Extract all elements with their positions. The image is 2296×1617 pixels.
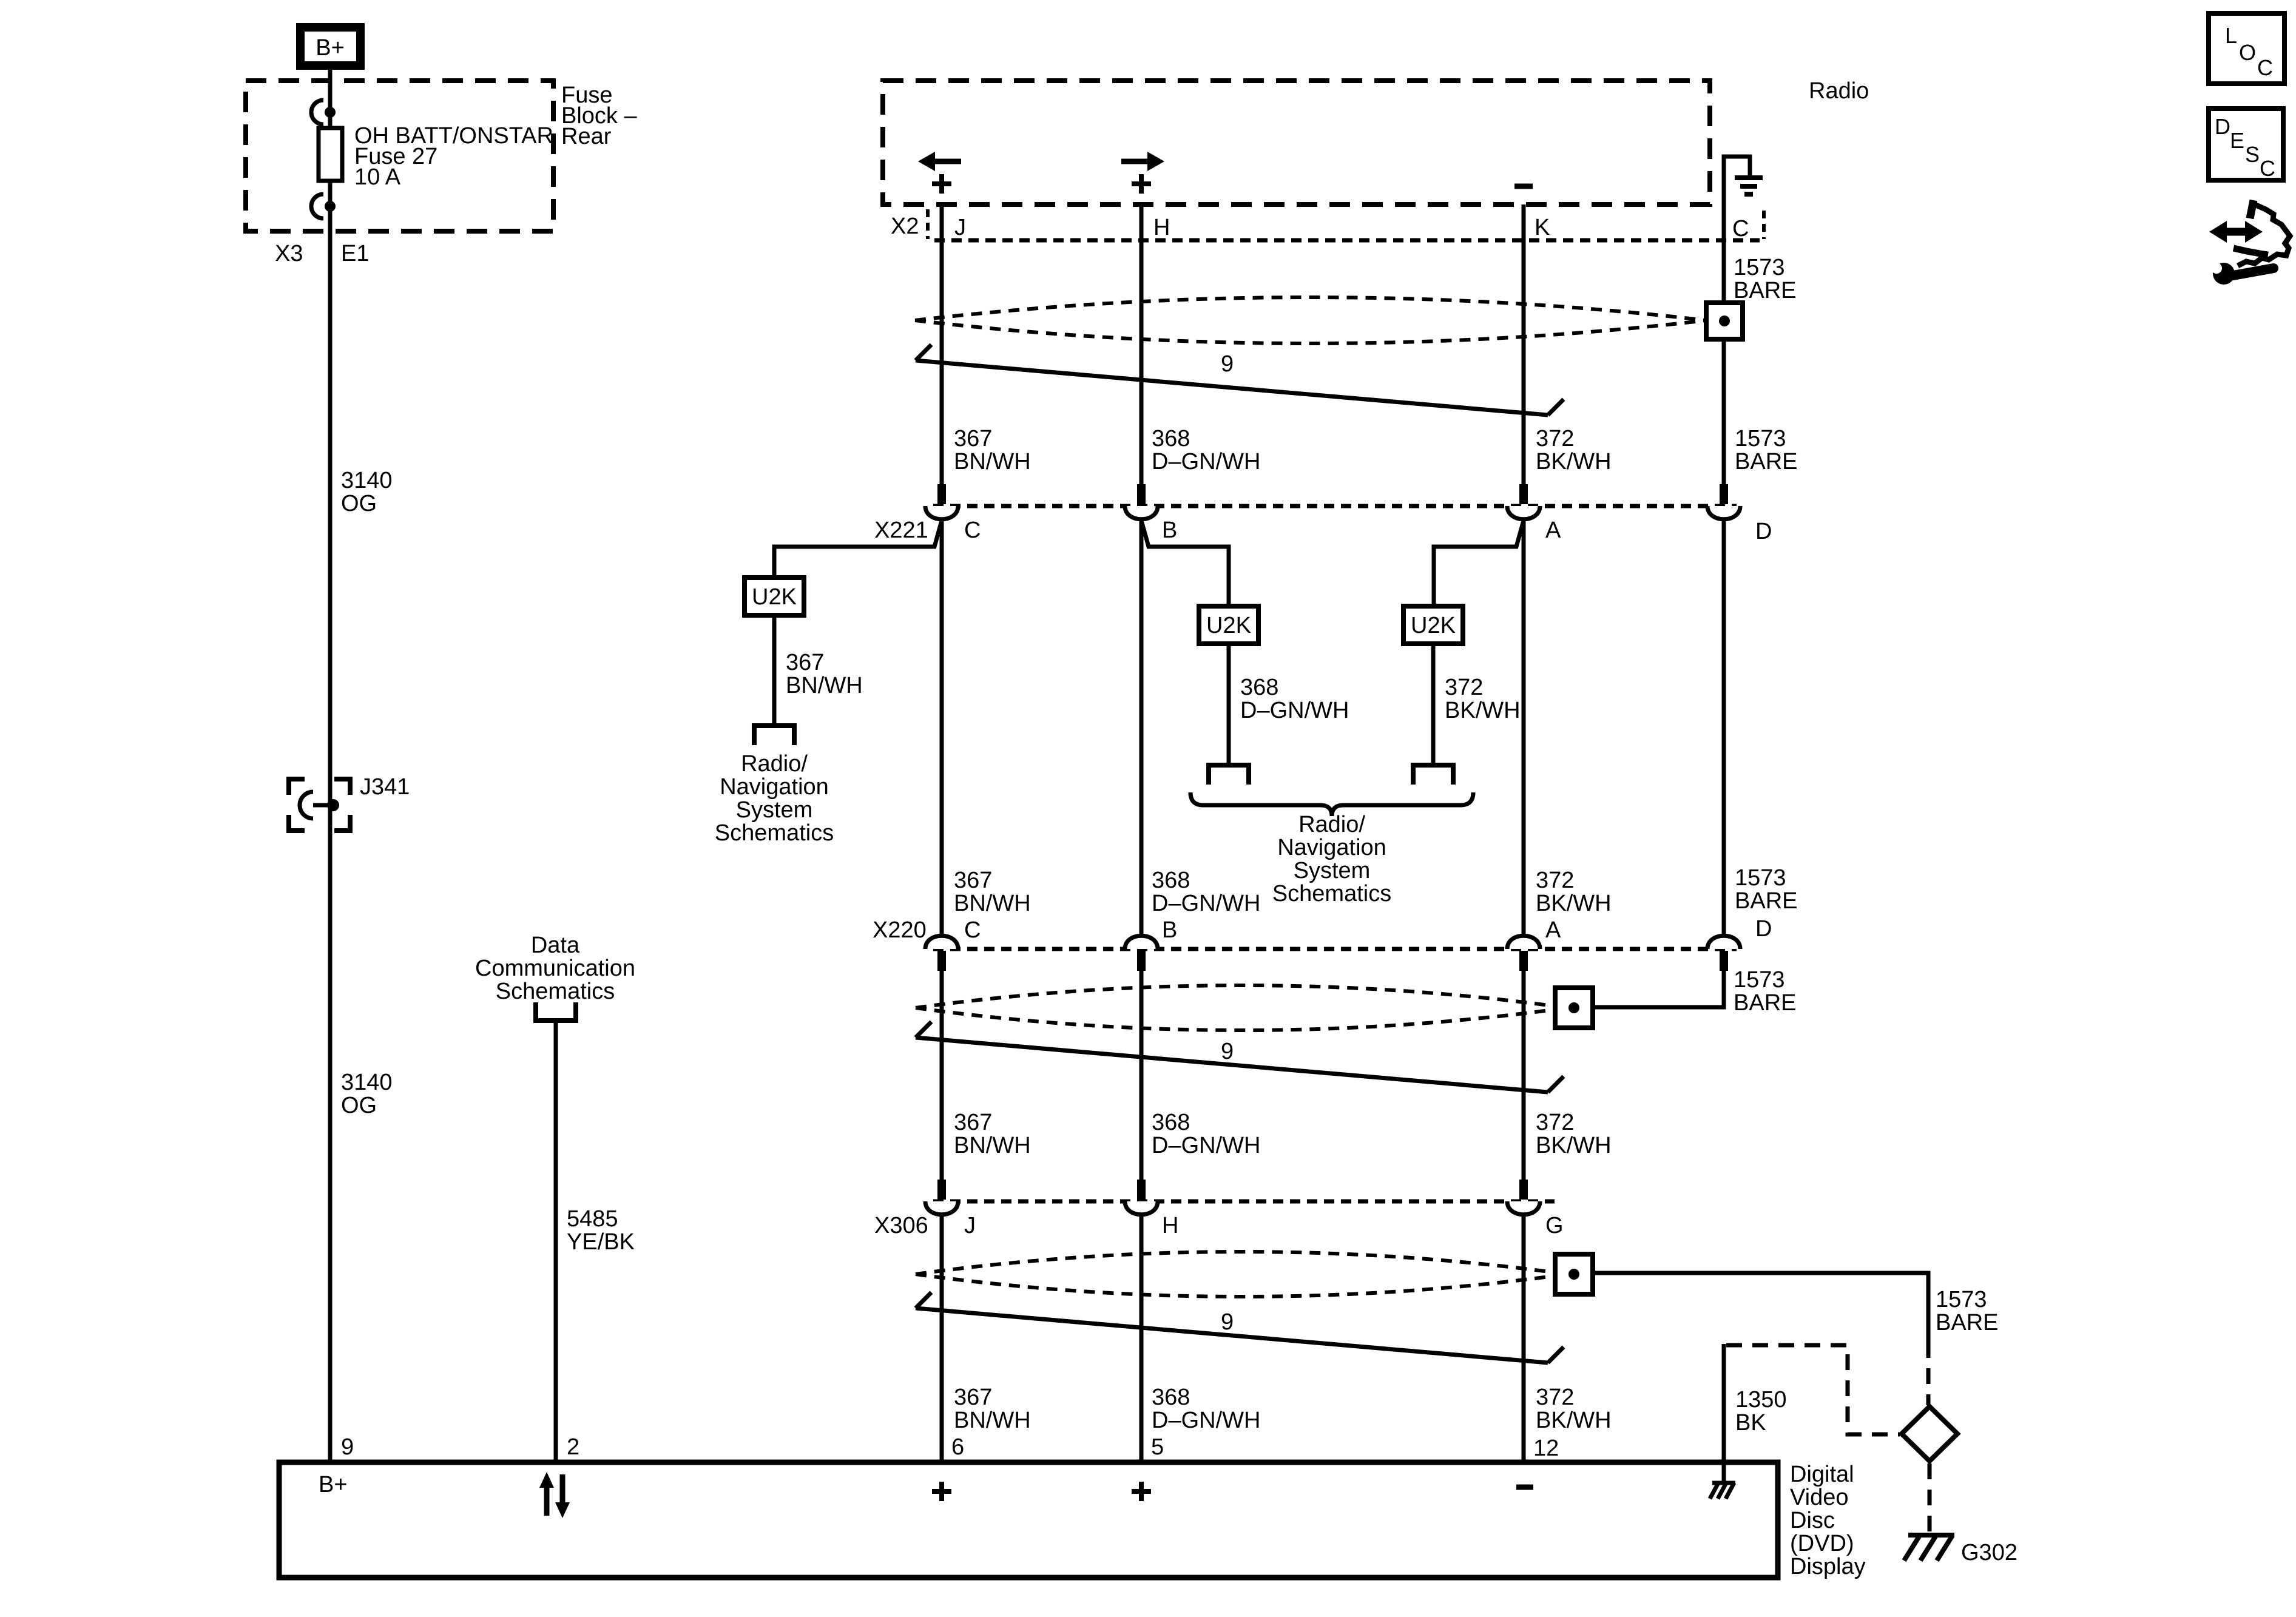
svg-text:BK/WH: BK/WH xyxy=(1536,1408,1612,1433)
label Radio/Navigation System Schematics left xyxy=(715,751,834,846)
label X220 and pins C B A D xyxy=(873,916,1772,943)
svg-text:C: C xyxy=(2260,156,2275,181)
svg-text:1573: 1573 xyxy=(1735,865,1786,891)
label Radio xyxy=(1809,78,1869,104)
svg-text:BK/WH: BK/WH xyxy=(1536,449,1612,474)
wire labels row 2 xyxy=(954,865,1797,916)
svg-text:BARE: BARE xyxy=(1735,449,1797,474)
svg-text:X306: X306 xyxy=(874,1213,928,1238)
connector X306 terminal H xyxy=(1125,1180,1158,1215)
connector X306 terminal J xyxy=(925,1180,958,1215)
svg-text:BK/WH: BK/WH xyxy=(1445,698,1521,723)
connector X220 dashed line xyxy=(933,947,1737,951)
shield drain termination box top xyxy=(1706,303,1743,339)
wire 1573 BARE column C/D xyxy=(1722,240,1726,934)
connector X221 terminal C xyxy=(925,484,958,519)
svg-text:1573: 1573 xyxy=(1734,967,1785,993)
radio + terminal J xyxy=(932,174,951,194)
label 367 BN/WH branch xyxy=(786,650,863,698)
connector X220 terminal B xyxy=(1125,936,1158,971)
wire from B+ through fuse to DVD pin 9 (3140 OG) xyxy=(328,66,333,1462)
label 368 D-GN/WH branch xyxy=(1240,675,1349,723)
svg-text:Rear: Rear xyxy=(561,124,612,149)
wire branch X221-B to U2K xyxy=(1141,521,1229,606)
svg-text:9: 9 xyxy=(341,1434,354,1460)
wire 1350 BK xyxy=(1722,1344,1726,1462)
svg-text:H: H xyxy=(1162,1213,1178,1238)
svg-text:367: 367 xyxy=(954,426,992,451)
svg-text:Radio: Radio xyxy=(1809,78,1869,104)
svg-text:BARE: BARE xyxy=(1936,1310,1998,1335)
wire labels row 1 xyxy=(954,426,1797,474)
dashed link 1350 BK to splice diamond xyxy=(1726,1345,1900,1434)
off-page bracket data communication xyxy=(536,1002,576,1021)
label 1573 BARE at X220 drain xyxy=(1734,967,1796,1016)
svg-text:S: S xyxy=(2245,142,2260,167)
svg-text:9: 9 xyxy=(1221,1309,1234,1335)
label OH BATT/ONSTAR Fuse 27 10 A xyxy=(354,123,553,190)
dashed link drain to diamond xyxy=(1926,1342,1931,1405)
svg-text:368: 368 xyxy=(1152,1385,1190,1410)
svg-text:X2: X2 xyxy=(891,214,919,239)
DVD serial data arrows xyxy=(539,1472,570,1518)
svg-text:D: D xyxy=(1755,916,1772,942)
svg-text:372: 372 xyxy=(1536,1385,1574,1410)
splice diamond xyxy=(1902,1406,1957,1461)
radio right audio arrow xyxy=(1121,152,1164,171)
shield drain termination box bottom xyxy=(1555,1254,1593,1294)
svg-text:367: 367 xyxy=(786,650,824,675)
svg-text:Radio/: Radio/ xyxy=(741,751,808,777)
connector X2 left tick xyxy=(926,209,930,239)
LOC legend box xyxy=(2209,13,2284,84)
svg-text:BARE: BARE xyxy=(1734,278,1796,303)
svg-text:D: D xyxy=(2215,114,2230,139)
svg-text:U2K: U2K xyxy=(1411,613,1456,638)
label Fuse Block - Rear xyxy=(561,83,637,149)
svg-text:Display: Display xyxy=(1790,1554,1866,1579)
svg-text:(DVD): (DVD) xyxy=(1790,1531,1854,1556)
DESC legend box xyxy=(2209,109,2283,181)
label 3140 OG lower xyxy=(341,1070,393,1118)
svg-text:B+: B+ xyxy=(316,35,345,61)
svg-text:C: C xyxy=(964,917,981,943)
twisted pair symbol 9 top xyxy=(916,345,1564,415)
fuse block rear dashed box xyxy=(246,81,553,231)
svg-text:E: E xyxy=(2230,128,2244,153)
DVD pin numbers 9 2 6 5 12 xyxy=(341,1434,1559,1461)
DVD chassis ground symbol xyxy=(1710,1462,1735,1499)
svg-text:OG: OG xyxy=(341,491,377,516)
svg-text:C: C xyxy=(1732,216,1749,241)
connector X221 terminal D xyxy=(1707,484,1740,519)
svg-text:L: L xyxy=(2225,23,2237,48)
label 9 middle xyxy=(1221,1039,1234,1064)
DVD display box xyxy=(279,1462,1778,1578)
svg-text:9: 9 xyxy=(1221,1039,1234,1064)
DVD + terminal pin 6 xyxy=(932,1482,951,1501)
svg-text:J: J xyxy=(954,215,966,240)
radio + terminal H xyxy=(1132,174,1151,194)
connector X220 terminal D xyxy=(1707,936,1740,971)
svg-text:B+: B+ xyxy=(319,1472,348,1497)
svg-text:Video: Video xyxy=(1790,1485,1849,1510)
splice J341 xyxy=(289,779,350,831)
label 9 bottom xyxy=(1221,1309,1234,1335)
svg-text:BN/WH: BN/WH xyxy=(954,891,1031,916)
svg-text:Communication: Communication xyxy=(475,956,635,981)
svg-text:372: 372 xyxy=(1536,868,1574,893)
twisted pair symbol 9 middle xyxy=(916,1022,1564,1092)
svg-text:BN/WH: BN/WH xyxy=(954,1408,1031,1433)
svg-text:367: 367 xyxy=(954,1385,992,1410)
svg-text:3140: 3140 xyxy=(341,1070,393,1095)
module U2K right xyxy=(1403,606,1463,644)
off-page bracket radio/nav left xyxy=(754,726,794,745)
wire 367 BN/WH column J/C xyxy=(940,204,944,1462)
off-page bracket radio/nav middle xyxy=(1209,765,1249,785)
svg-text:G302: G302 xyxy=(1961,1540,2017,1565)
label X221 and pins C B A D xyxy=(874,518,1772,544)
svg-text:X220: X220 xyxy=(873,917,927,943)
svg-text:368: 368 xyxy=(1152,868,1190,893)
svg-text:BK/WH: BK/WH xyxy=(1536,891,1612,916)
svg-text:Schematics: Schematics xyxy=(1272,881,1391,906)
shield ellipse middle drain xyxy=(916,985,1567,1030)
svg-text:10 A: 10 A xyxy=(354,164,401,190)
svg-text:D–GN/WH: D–GN/WH xyxy=(1152,1133,1260,1158)
label 9 top xyxy=(1221,351,1234,377)
label 5485 YE/BK xyxy=(567,1206,635,1255)
connector X220 terminal A xyxy=(1507,936,1540,971)
svg-text:D–GN/WH: D–GN/WH xyxy=(1152,1408,1260,1433)
svg-text:6: 6 xyxy=(951,1434,964,1460)
svg-text:D–GN/WH: D–GN/WH xyxy=(1152,891,1260,916)
svg-text:Schematics: Schematics xyxy=(715,820,834,846)
svg-text:System: System xyxy=(1294,858,1371,883)
svg-text:YE/BK: YE/BK xyxy=(567,1229,635,1255)
fuse clip top xyxy=(311,100,336,124)
svg-text:372: 372 xyxy=(1536,1110,1574,1135)
B+ battery feed symbol xyxy=(300,27,360,66)
svg-text:367: 367 xyxy=(954,868,992,893)
svg-text:A: A xyxy=(1545,518,1561,543)
module U2K middle xyxy=(1199,606,1258,644)
svg-text:H: H xyxy=(1153,215,1170,240)
svg-text:BN/WH: BN/WH xyxy=(954,449,1031,474)
svg-text:2: 2 xyxy=(567,1434,579,1460)
label G302 xyxy=(1961,1540,2017,1565)
svg-text:K: K xyxy=(1535,215,1550,240)
svg-text:Navigation: Navigation xyxy=(1277,835,1386,860)
svg-text:Navigation: Navigation xyxy=(720,774,829,800)
svg-text:368: 368 xyxy=(1152,1110,1190,1135)
svg-text:368: 368 xyxy=(1240,675,1278,700)
wire 372 BK/WH to radio/nav xyxy=(1431,644,1436,765)
svg-text:C: C xyxy=(2257,55,2273,80)
ground G302 symbol xyxy=(1904,1535,1954,1561)
wire shield drain to splice diamond xyxy=(1593,1273,1928,1342)
DVD + terminal pin 5 xyxy=(1132,1482,1151,1501)
label X2 and pins J H K C xyxy=(891,214,1749,241)
label 1573 BARE below X2 xyxy=(1734,255,1796,303)
label 1573 BARE right xyxy=(1936,1287,1998,1335)
svg-text:J: J xyxy=(964,1213,976,1238)
radio left audio arrow xyxy=(918,152,961,171)
svg-text:9: 9 xyxy=(1221,351,1234,377)
svg-text:D: D xyxy=(1755,519,1772,544)
wire 5485 YE/BK to DVD pin 2 xyxy=(554,1023,558,1462)
wire 367 BN/WH to radio/nav xyxy=(772,615,777,726)
wire 372 BK/WH column K/A/G xyxy=(1522,204,1526,1462)
svg-text:B: B xyxy=(1162,917,1177,943)
svg-text:372: 372 xyxy=(1445,675,1483,700)
svg-text:OG: OG xyxy=(341,1093,377,1118)
wire X220-D drain to shield box xyxy=(1593,970,1724,1007)
wire 368 D-GN/WH column H/B xyxy=(1140,204,1144,1462)
twisted pair symbol 9 bottom xyxy=(916,1292,1564,1363)
label Digital Video Disc (DVD) Display xyxy=(1790,1462,1866,1579)
svg-text:O: O xyxy=(2239,40,2256,65)
shield ellipse bottom drain xyxy=(916,1252,1567,1297)
svg-text:BARE: BARE xyxy=(1735,888,1797,914)
svg-text:BN/WH: BN/WH xyxy=(954,1133,1031,1158)
svg-text:367: 367 xyxy=(954,1110,992,1135)
radio dashed box xyxy=(883,81,1710,204)
svg-text:B: B xyxy=(1162,518,1177,543)
svg-text:1573: 1573 xyxy=(1936,1287,1987,1312)
connector X306 terminal G xyxy=(1507,1180,1540,1215)
svg-text:Digital: Digital xyxy=(1790,1462,1854,1487)
shield ellipse radio drain xyxy=(915,297,1706,343)
svg-text:5485: 5485 xyxy=(567,1206,618,1232)
label 372 BK/WH branch xyxy=(1445,675,1521,723)
wire branch X221-C to U2K xyxy=(774,521,942,578)
svg-text:G: G xyxy=(1545,1213,1564,1238)
connector X306 dashed line xyxy=(933,1200,1555,1204)
svg-text:Data: Data xyxy=(531,933,580,958)
svg-text:Radio/: Radio/ xyxy=(1298,812,1365,837)
radio - terminal K xyxy=(1514,184,1533,189)
brace radio/navigation xyxy=(1190,792,1473,816)
dashed link diamond to G302 xyxy=(1928,1463,1932,1531)
svg-text:1350: 1350 xyxy=(1735,1387,1787,1413)
connector X221 dashed line xyxy=(933,504,1737,508)
fuse F27 body xyxy=(319,128,342,181)
wire 368 D-GN/WH to radio/nav xyxy=(1227,644,1231,765)
DVD - terminal pin 12 xyxy=(1516,1485,1533,1490)
label X306 and pins J H G xyxy=(874,1213,1564,1238)
svg-text:368: 368 xyxy=(1152,426,1190,451)
off-page bracket radio/nav right xyxy=(1413,765,1453,785)
fuse clip bottom xyxy=(311,194,336,218)
svg-text:BN/WH: BN/WH xyxy=(786,673,863,698)
svg-text:BK/WH: BK/WH xyxy=(1536,1133,1612,1158)
svg-text:3140: 3140 xyxy=(341,468,393,493)
wire labels row 4 xyxy=(954,1385,1612,1433)
connector X221 terminal B xyxy=(1125,484,1158,519)
harness routing icon with wrench xyxy=(2204,200,2290,285)
svg-text:12: 12 xyxy=(1533,1436,1559,1461)
connector X2 right tick xyxy=(1762,211,1766,239)
label 3140 OG upper xyxy=(341,468,393,516)
shield drain termination box middle xyxy=(1555,988,1593,1028)
svg-text:372: 372 xyxy=(1536,426,1574,451)
svg-text:BARE: BARE xyxy=(1734,990,1796,1016)
svg-text:A: A xyxy=(1545,917,1561,943)
svg-text:System: System xyxy=(736,797,813,823)
radio internal ground symbol xyxy=(1724,157,1763,240)
svg-text:E1: E1 xyxy=(341,241,369,266)
svg-text:U2K: U2K xyxy=(1206,613,1251,638)
svg-text:U2K: U2K xyxy=(752,584,797,610)
label 1350 BK xyxy=(1735,1387,1787,1436)
svg-text:BK: BK xyxy=(1735,1410,1766,1436)
svg-text:J341: J341 xyxy=(360,774,410,800)
pin labels X3 / E1 xyxy=(275,241,369,266)
label Radio/Navigation System Schematics center xyxy=(1272,812,1391,906)
wire branch X221-A to U2K xyxy=(1434,521,1524,606)
connector X2 dashed line xyxy=(934,238,1760,243)
svg-text:1573: 1573 xyxy=(1734,255,1785,280)
connector X221 terminal A xyxy=(1507,484,1540,519)
svg-text:5: 5 xyxy=(1151,1434,1164,1460)
label Data Communication Schematics xyxy=(475,933,635,1004)
DVD B+ terminal label xyxy=(319,1472,348,1497)
svg-text:X221: X221 xyxy=(874,518,928,543)
svg-text:C: C xyxy=(964,518,981,543)
svg-text:X3: X3 xyxy=(275,241,303,266)
svg-text:1573: 1573 xyxy=(1735,426,1786,451)
svg-text:Schematics: Schematics xyxy=(496,979,615,1004)
svg-text:D–GN/WH: D–GN/WH xyxy=(1240,698,1349,723)
module U2K left xyxy=(745,578,804,615)
svg-text:D–GN/WH: D–GN/WH xyxy=(1152,449,1260,474)
svg-text:Disc: Disc xyxy=(1790,1508,1835,1533)
connector X220 terminal C xyxy=(925,936,958,971)
wire labels row 3 xyxy=(954,1110,1612,1158)
